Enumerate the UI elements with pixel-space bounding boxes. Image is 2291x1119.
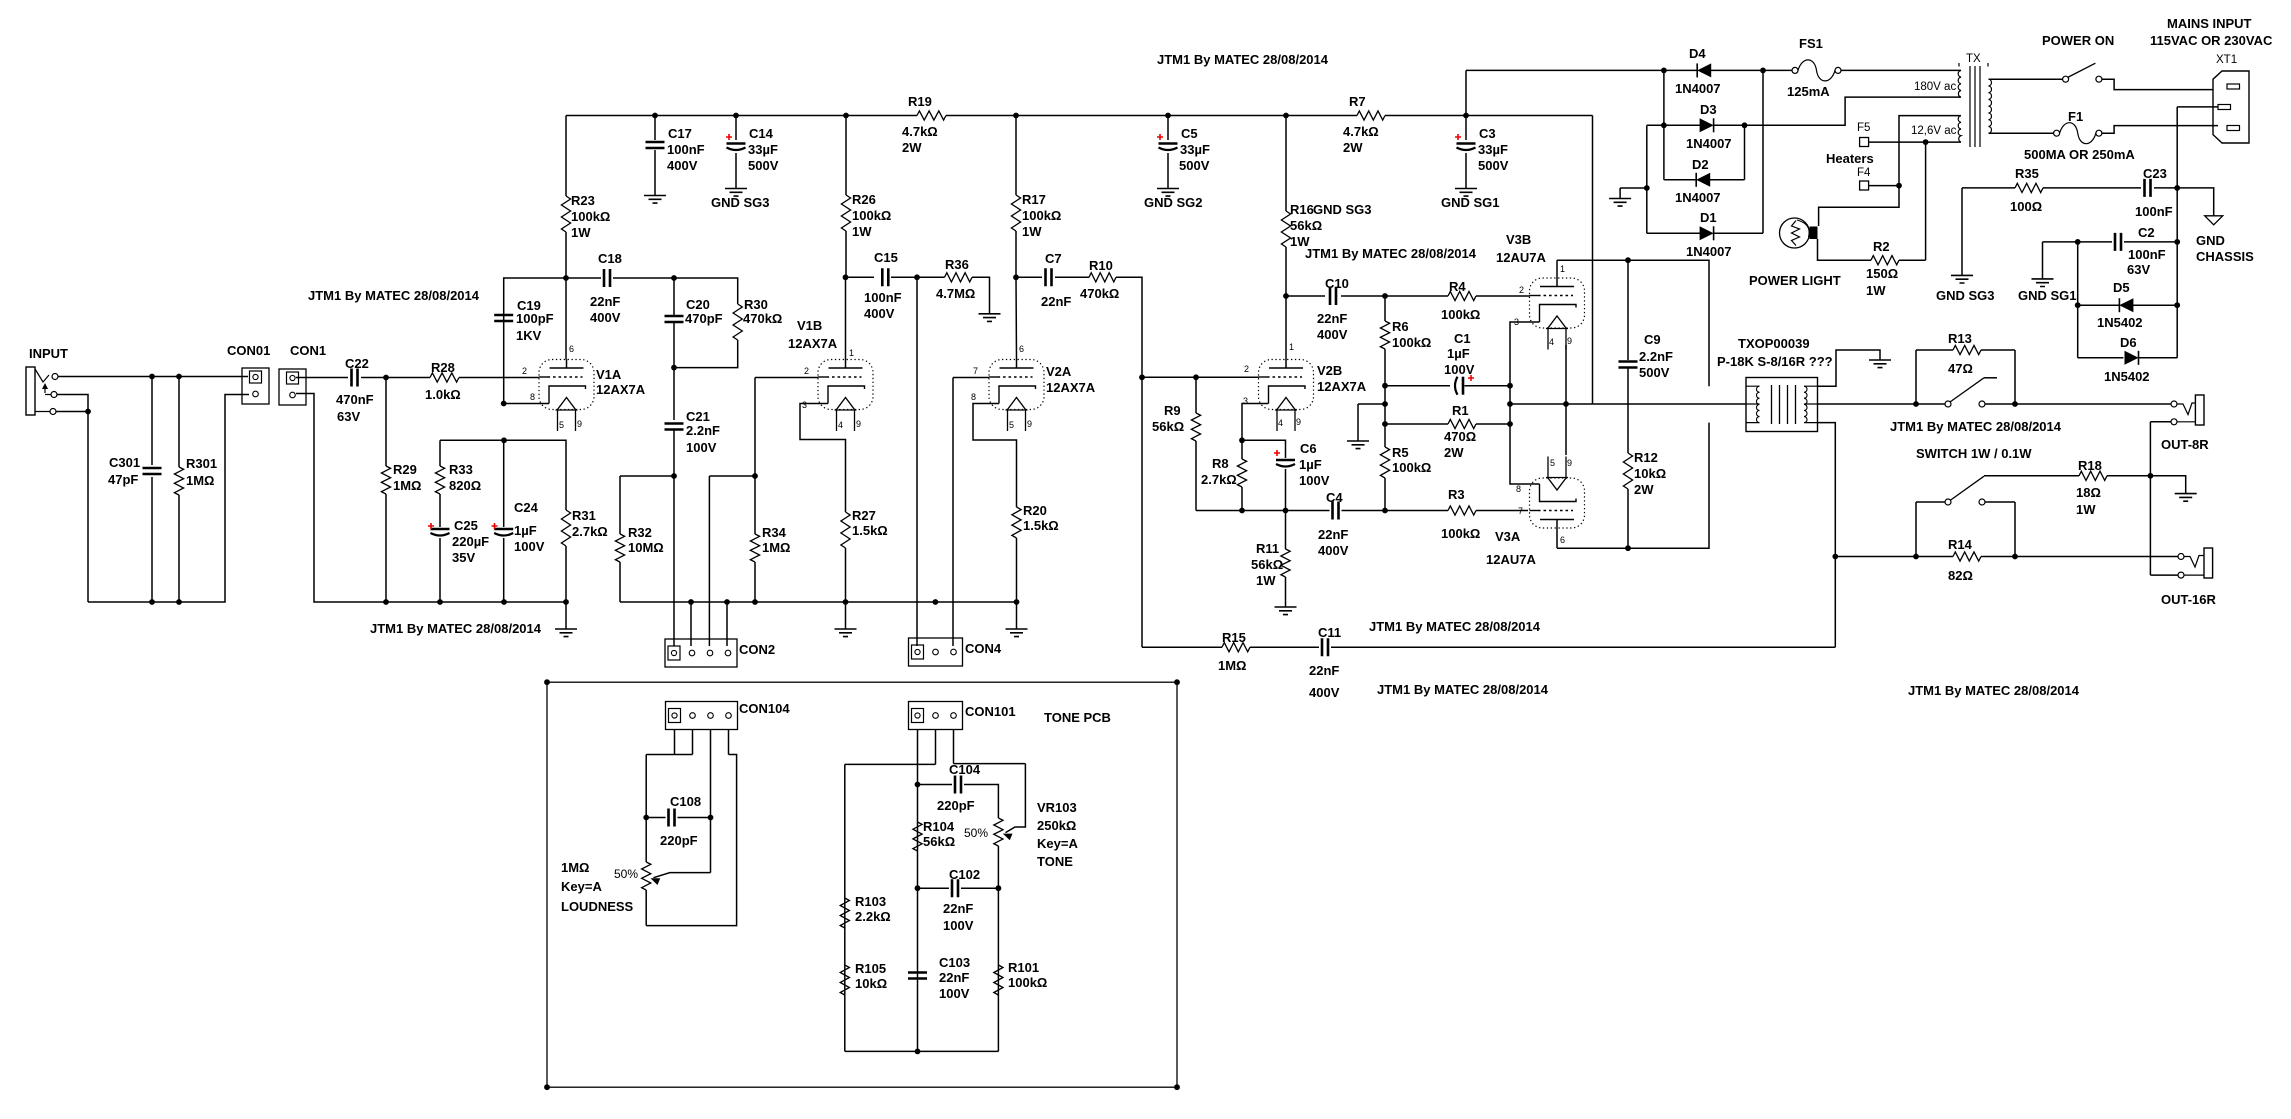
junction C5 top (1165, 113, 1171, 119)
wire R18 to ground (2107, 476, 2186, 494)
junction C24 bottom (501, 599, 507, 605)
wire pins12 join (646, 754, 692, 756)
svg-text:100kΩ: 100kΩ (1441, 307, 1480, 322)
junction bottom wire (915, 1049, 921, 1055)
resistor R31 (561, 510, 570, 546)
junction R14 right (2012, 554, 2018, 560)
corner handle (1174, 1084, 1180, 1090)
connector CON1 (279, 369, 306, 405)
wire C20 top lead (673, 278, 675, 316)
capacitor C102 (952, 879, 958, 897)
svg-text:8: 8 (1516, 484, 1521, 494)
resistor R11 (1281, 549, 1290, 577)
junction ground wire (1382, 401, 1388, 407)
svg-text:100nF: 100nF (864, 290, 902, 305)
svg-text:22nF: 22nF (590, 294, 620, 309)
svg-text:C14: C14 (749, 126, 774, 141)
wire F1 to XT1 pin3 (2102, 126, 2218, 134)
svg-text:C7: C7 (1045, 251, 1062, 266)
junction C20 top (671, 275, 677, 281)
svg-text:12AU7A: 12AU7A (1496, 250, 1546, 265)
junction R29 bottom (383, 599, 389, 605)
ground under R11 (1275, 607, 1297, 615)
wire C22 to R28 (361, 377, 430, 379)
triode V1B (818, 360, 873, 432)
capacitor C103 (908, 973, 927, 979)
svg-text:82Ω: 82Ω (1948, 568, 1973, 583)
resistor R104 (913, 822, 922, 851)
wire R34 bottom lead (754, 562, 756, 602)
diode D5 (2118, 298, 2120, 312)
svg-text:V3A: V3A (1495, 529, 1521, 544)
wire R6 bottom lead (1384, 349, 1386, 386)
wire CON104 pin1 down (674, 730, 676, 755)
svg-text:R11: R11 (1256, 541, 1279, 556)
potentiometer LOUDNESS wiper arrow (651, 878, 661, 885)
wire OT secondary bottom down (1818, 423, 1836, 648)
svg-text:500V: 500V (1478, 158, 1509, 173)
svg-text:1MΩ: 1MΩ (762, 540, 790, 555)
svg-text:56kΩ: 56kΩ (1290, 218, 1322, 233)
wire V1B plate lead (845, 277, 847, 359)
transformer TX primary 180V winding (1958, 70, 1961, 97)
svg-text:400V: 400V (1318, 543, 1349, 558)
diode D3 (1713, 118, 1715, 132)
svg-text:C1: C1 (1454, 331, 1471, 346)
svg-text:C102: C102 (949, 867, 980, 882)
capacitor C24 (494, 528, 513, 531)
svg-text:R27: R27 (852, 508, 876, 523)
corner handle (1174, 679, 1180, 685)
resistor R17 (1011, 195, 1020, 231)
transformer TXOP1 box (1746, 378, 1818, 432)
svg-text:4: 4 (838, 420, 843, 430)
svg-text:R103: R103 (855, 894, 886, 909)
svg-text:CON4: CON4 (965, 641, 1002, 656)
wire cathode bus (1196, 510, 1330, 512)
svg-text:R33: R33 (449, 462, 473, 477)
wire R17 top (1015, 116, 1017, 196)
switch S1 pole (2063, 76, 2069, 82)
wire S3 right stub (1985, 501, 2015, 503)
wire V1A plate lead (565, 278, 567, 360)
junction C25 bottom (437, 599, 443, 605)
junction D3 row (1661, 122, 1667, 128)
wire D6 left (2078, 357, 2124, 359)
svg-text:JTM1 By MATEC 28/08/2014: JTM1 By MATEC 28/08/2014 (1157, 52, 1329, 67)
svg-text:150Ω: 150Ω (1866, 266, 1898, 281)
junction R301 bottom (176, 599, 182, 605)
capacitor C6 (1276, 459, 1295, 462)
resistor R2 (1871, 256, 1899, 265)
wire pot bottom (645, 890, 647, 926)
svg-text:R301: R301 (186, 456, 217, 471)
svg-text:400V: 400V (1309, 685, 1340, 700)
svg-text:D2: D2 (1692, 157, 1709, 172)
svg-text:SWITCH 1W / 0.1W: SWITCH 1W / 0.1W (1916, 446, 2032, 461)
svg-text:1.5kΩ: 1.5kΩ (1023, 518, 1059, 533)
svg-text:TX: TX (1966, 53, 1981, 65)
resistor R28 (430, 373, 459, 382)
wire to C108-pot (645, 755, 647, 863)
junction F4 (1896, 183, 1902, 189)
resistor R105 (840, 965, 849, 995)
wire input sleeve (56, 411, 88, 413)
wire R8 top lead (1241, 440, 1243, 459)
wire D4-D2 left riser (1663, 70, 1665, 179)
chassis ground GND CHASSIS (2205, 216, 2223, 225)
wire feedback to R14 (1835, 556, 1953, 558)
wire R5 upper leads (1384, 386, 1386, 447)
svg-text:470kΩ: 470kΩ (1080, 286, 1119, 301)
svg-text:P-18K S-8/16R ???: P-18K S-8/16R ??? (1717, 354, 1833, 369)
svg-text:2.2kΩ: 2.2kΩ (855, 909, 891, 924)
resistor R3 (1448, 506, 1476, 515)
wire to OUT-8R tip (1985, 403, 2174, 405)
capacitor C7 (1046, 268, 1052, 286)
wire CON1 to C22 (296, 377, 348, 379)
capacitor C25 (431, 528, 450, 531)
plus C6 (1274, 450, 1280, 456)
plus C3 (1455, 134, 1461, 140)
svg-text:OUT-8R: OUT-8R (2161, 437, 2209, 452)
svg-text:VR103: VR103 (1037, 800, 1077, 815)
transformer TX primary 12.6V winding (1958, 116, 1961, 142)
junction OUT-8R sleeve net (2148, 473, 2154, 479)
wire R32 top lead (619, 476, 621, 534)
wire TX to switch (1989, 78, 2063, 80)
wire C17 bottom (654, 150, 656, 196)
junction C102 right (996, 885, 1002, 891)
wire R16 top (1285, 116, 1287, 212)
svg-text:50%: 50% (614, 867, 638, 881)
ground OT secondary (1869, 360, 1891, 368)
junction R5 bottom (1382, 508, 1388, 514)
wire D6 right (2139, 357, 2178, 359)
triode V2B (1259, 360, 1314, 432)
svg-text:F5: F5 (1857, 122, 1870, 134)
junction R32 wire (671, 473, 677, 479)
svg-text:1: 1 (1289, 342, 1294, 352)
svg-text:400V: 400V (590, 310, 621, 325)
wire R35 to C23 (2043, 187, 2141, 189)
svg-text:7: 7 (1518, 506, 1523, 516)
junction feedback-grid (1139, 374, 1145, 380)
wire XT1 pin2 drop (2176, 107, 2178, 242)
svg-text:12AU7A: 12AU7A (1486, 552, 1536, 567)
wire R8 bottom lead (1241, 487, 1243, 511)
diode D6 (2138, 351, 2140, 365)
svg-text:D1: D1 (1700, 210, 1717, 225)
svg-text:C10: C10 (1325, 276, 1349, 291)
wire C6 bottom lead (1285, 469, 1287, 511)
wire R2 right (1899, 259, 1926, 261)
resistor R1 (1448, 419, 1476, 428)
OUT-8R sleeve contact (2171, 419, 2177, 425)
wire V1B cathode to R27 (800, 404, 846, 513)
svg-text:9: 9 (1027, 419, 1032, 429)
capacitor C5 (1159, 142, 1178, 145)
wire C10 to R4 node (1341, 295, 1385, 297)
wire C23 right (2154, 187, 2177, 189)
svg-text:1N5402: 1N5402 (2104, 369, 2150, 384)
wire V1A cathode stub (504, 403, 539, 405)
svg-text:R34: R34 (762, 525, 787, 540)
junction CON2 pin2 (688, 599, 694, 605)
terminal F4 (1860, 181, 1869, 190)
wire D3-D2 riser (1744, 125, 1746, 180)
resistor R103 (840, 898, 849, 928)
svg-text:22nF: 22nF (939, 970, 969, 985)
lamp POWER LIGHT (1780, 218, 1810, 248)
junction heater-OT wire (1563, 401, 1569, 407)
svg-text:R104: R104 (923, 819, 955, 834)
svg-text:TONE: TONE (1037, 854, 1073, 869)
svg-text:220µF: 220µF (452, 534, 489, 549)
svg-text:R26: R26 (852, 192, 876, 207)
ground under C17 (644, 196, 666, 204)
svg-text:C301: C301 (109, 455, 140, 470)
switch S2 pole (1945, 401, 1951, 407)
capacitor C15 (882, 268, 888, 286)
wire to ground R27 (845, 602, 847, 629)
wire C102 left (918, 887, 950, 889)
svg-text:Key=A: Key=A (1037, 836, 1078, 851)
svg-text:CON101: CON101 (965, 704, 1016, 719)
svg-text:GND SG3: GND SG3 (1936, 288, 1995, 303)
wire to chassis ground (2177, 188, 2214, 216)
wire pin2 left (845, 763, 936, 765)
capacitor C21 (665, 424, 684, 430)
junction CON4 pin1 riser (914, 274, 920, 280)
svg-text:1KV: 1KV (516, 328, 542, 343)
potentiometer LOUDNESS element (642, 862, 651, 890)
wire R14 to OUT-16R (1981, 556, 2178, 558)
svg-text:1W: 1W (1866, 283, 1886, 298)
svg-text:Key=A: Key=A (561, 879, 602, 894)
wire OUT-16R sleeve (2150, 574, 2178, 576)
svg-text:100kΩ: 100kΩ (852, 208, 891, 223)
svg-text:100V: 100V (943, 918, 974, 933)
svg-text:10kΩ: 10kΩ (855, 976, 887, 991)
wire C1 to cathode line (1465, 385, 1511, 387)
svg-text:MAINS INPUT: MAINS INPUT (2167, 16, 2252, 31)
wire to C1 (1385, 385, 1450, 387)
wire FS1 to TX (1841, 69, 1961, 71)
wire S3 to R18 (1984, 475, 2079, 477)
wire C15 node to CON4 pin1 (916, 277, 918, 646)
wire GND SG3 drop (1961, 188, 1963, 276)
svg-text:V1B: V1B (797, 318, 822, 333)
svg-text:4.7kΩ: 4.7kΩ (902, 124, 938, 139)
wire B+ drop to OT (1592, 116, 1594, 405)
wire R17 bottom (1015, 231, 1017, 277)
switch S2 lever (1950, 378, 1984, 402)
wire R301 bottom lead (178, 495, 180, 602)
resistor R36 (945, 273, 973, 282)
svg-text:JTM1 By MATEC 28/08/2014: JTM1 By MATEC 28/08/2014 (1369, 619, 1541, 634)
svg-text:4: 4 (1278, 418, 1283, 428)
wire R26 top (845, 116, 847, 196)
wire R29 bottom lead (385, 494, 387, 602)
wire R10 feedback down (1116, 277, 1142, 647)
wire C24 top lead (503, 440, 505, 527)
wire R29 top lead (385, 378, 387, 467)
capacitor C108 (669, 809, 675, 827)
svg-text:1W: 1W (1022, 224, 1042, 239)
svg-text:18Ω: 18Ω (2076, 485, 2101, 500)
wire CON101 pin2 down (935, 730, 937, 765)
wire D4 to FS1 (1711, 69, 1792, 71)
junction C14 top (733, 113, 739, 119)
ground under C3 (1455, 189, 1477, 197)
plus C1 (1468, 375, 1474, 381)
svg-text:1MΩ: 1MΩ (393, 478, 421, 493)
svg-text:D5: D5 (2113, 280, 2130, 295)
svg-text:820Ω: 820Ω (449, 478, 481, 493)
svg-text:C25: C25 (454, 518, 478, 533)
svg-text:Heaters: Heaters (1826, 151, 1874, 166)
svg-text:C17: C17 (668, 126, 692, 141)
wire R103-R105 chain (844, 764, 846, 1051)
resistor R26 (841, 195, 850, 231)
junction V1A cathode (501, 401, 507, 407)
wire R9 top lead (1195, 377, 1197, 413)
wire cathode net to R31 (440, 440, 566, 510)
capacitor C23 (2145, 179, 2151, 197)
junction R20 bottom (1014, 599, 1020, 605)
wire D2 left (1664, 179, 1696, 181)
svg-text:R23: R23 (571, 193, 595, 208)
wire CON1 pin2 ground rail B (296, 394, 566, 603)
svg-text:R17: R17 (1022, 192, 1046, 207)
svg-text:F4: F4 (1857, 167, 1871, 179)
svg-text:POWER ON: POWER ON (2042, 33, 2114, 48)
junction C3 top (1463, 113, 1469, 119)
junction R1 left (1382, 421, 1388, 427)
wire B+ rail right (1385, 115, 1593, 117)
svg-text:2W: 2W (902, 140, 922, 155)
svg-text:2: 2 (522, 366, 527, 376)
resistor R6 (1380, 321, 1389, 349)
junction R16 top (1283, 113, 1289, 119)
wire R13 top right (1981, 349, 2015, 351)
wire R11 top lead (1285, 511, 1287, 550)
wire CON101 pin3 down (953, 730, 955, 764)
svg-text:R12: R12 (1634, 450, 1658, 465)
wire GND SG3 to R35 (1962, 187, 2015, 189)
svg-text:R105: R105 (855, 961, 886, 976)
corner handle (544, 679, 550, 685)
wire CON104 pin3 down (710, 730, 712, 873)
svg-text:125mA: 125mA (1787, 84, 1830, 99)
wire V3B plate to OT top (1557, 260, 1709, 386)
svg-text:R19: R19 (908, 94, 932, 109)
switch S3 throw (1979, 499, 1985, 505)
wire VR103 wiper lead (1006, 764, 1026, 833)
svg-text:CHASSIS: CHASSIS (2196, 249, 2254, 264)
capacitor C1 (1455, 377, 1458, 395)
resistor R101 (994, 965, 1003, 995)
svg-text:R7: R7 (1349, 94, 1366, 109)
svg-text:56kΩ: 56kΩ (1152, 419, 1184, 434)
wire C9 top lead (1627, 260, 1629, 360)
wire C108 left (646, 817, 665, 819)
svg-text:1W: 1W (571, 225, 591, 240)
svg-text:47pF: 47pF (108, 472, 138, 487)
junction R34 bottom (752, 599, 758, 605)
wire S2 lever stub (1984, 377, 1997, 379)
wire R13 right riser (2014, 350, 2016, 404)
wire V2A grid to CON4 pin3 (952, 378, 954, 647)
junction V2A plate node (1013, 274, 1019, 280)
triode V3A (1530, 457, 1585, 529)
wire R15 to C11 (1250, 646, 1319, 648)
junction D5 left riser (2075, 239, 2081, 245)
junction D4 right (1760, 68, 1766, 74)
svg-text:R16: R16 (1290, 202, 1314, 217)
svg-text:1.5kΩ: 1.5kΩ (852, 523, 888, 538)
capacitor C9 (1619, 362, 1638, 368)
svg-text:1N4007: 1N4007 (1675, 81, 1721, 96)
wire to mid ground (1358, 403, 1385, 405)
triode V3B (1530, 278, 1585, 350)
svg-text:1MΩ: 1MΩ (186, 473, 214, 488)
wire R23 top (565, 116, 567, 197)
wire input tip to CON01 (58, 376, 248, 378)
wire R11 bottom lead (1285, 577, 1287, 607)
svg-text:9: 9 (1567, 458, 1572, 468)
wire S3 right riser (2014, 502, 2016, 557)
svg-text:10MΩ: 10MΩ (628, 540, 664, 555)
wire D1 right (1714, 232, 1763, 234)
wire R26 bottom (845, 231, 847, 277)
svg-text:400V: 400V (667, 158, 698, 173)
resistor R34 (750, 534, 759, 562)
svg-text:5: 5 (1550, 458, 1555, 468)
svg-text:250kΩ: 250kΩ (1037, 818, 1076, 833)
diode D1 (1713, 226, 1715, 240)
svg-text:C20: C20 (686, 297, 710, 312)
wire R3 to V3A grid (1476, 510, 1528, 512)
OUT-16R sleeve contact (2178, 572, 2184, 578)
svg-text:2: 2 (1519, 285, 1524, 295)
svg-text:1MΩ: 1MΩ (561, 860, 589, 875)
corner handle (544, 1084, 550, 1090)
svg-text:2: 2 (804, 366, 809, 376)
fuse F1 (2054, 130, 2060, 136)
svg-text:1W: 1W (1256, 573, 1276, 588)
svg-text:6: 6 (1019, 344, 1024, 354)
svg-text:63V: 63V (337, 409, 360, 424)
wire heater pin9 link (1565, 345, 1567, 455)
wire input ring down (57, 395, 88, 603)
junction C2 right (2174, 239, 2180, 245)
wire TX to F1 (1989, 132, 2054, 134)
svg-text:JTM1 By MATEC 28/08/2014: JTM1 By MATEC 28/08/2014 (1377, 682, 1549, 697)
OUT-16R tip contact (2178, 554, 2184, 560)
svg-text:C22: C22 (345, 356, 369, 371)
wire plate to C7 (1016, 276, 1042, 278)
svg-text:1W: 1W (852, 224, 872, 239)
wire R12 bottom lead (1627, 489, 1629, 548)
svg-text:R5: R5 (1392, 445, 1409, 460)
svg-text:JTM1 By MATEC 28/08/2014: JTM1 By MATEC 28/08/2014 (1908, 683, 2080, 698)
junction R31 bottom rail (563, 599, 569, 605)
resistor R18 (2079, 471, 2107, 480)
connector CON101 (909, 702, 963, 730)
svg-text:5: 5 (1009, 420, 1014, 430)
